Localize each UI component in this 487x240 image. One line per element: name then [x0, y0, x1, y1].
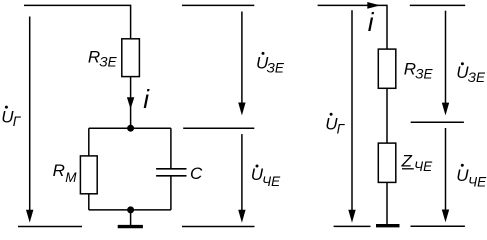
arrowhead U_G left diagram	[26, 210, 33, 223]
wire R_ZE bottom to node A	[130, 77, 132, 129]
wire top rail mid segment	[182, 4, 254, 6]
svg-text:ЗЕ: ЗЕ	[468, 70, 486, 85]
wire U_ZE arrow shaft left diagram	[241, 12, 243, 104]
dot of U_CHE label right	[461, 164, 464, 167]
svg-text:ЗЕ: ЗЕ	[415, 67, 433, 82]
wire corner down to R_ZE right	[386, 5, 388, 49]
svg-text:Z: Z	[401, 152, 413, 171]
wire cap branch top	[170, 128, 172, 168]
svg-text:R: R	[88, 47, 100, 66]
impedance Z_CHE body	[378, 143, 396, 182]
wire U_ZE arrow shaft right diagram	[445, 11, 447, 104]
resistor R_ZE left diagram body	[122, 39, 140, 77]
dot of U_CHE label left	[256, 165, 259, 168]
node A junction dot top	[127, 125, 134, 132]
underline of Z_CHE	[402, 168, 414, 170]
wire RC top	[89, 127, 171, 129]
wire U_G arrow shaft right diagram	[351, 10, 353, 210]
wire bottom rail mid segment	[182, 226, 255, 228]
svg-text:C: C	[190, 164, 203, 183]
arrowhead U_CHE left diagram	[238, 210, 245, 223]
wire top rail left diagram	[24, 4, 131, 6]
dot of U_G label right	[330, 113, 333, 116]
svg-text:R: R	[53, 161, 65, 180]
wire U_CHE arrow shaft right diagram	[445, 128, 447, 210]
wire corner down to R_ZE	[130, 5, 132, 39]
wire RC bottom	[89, 209, 171, 211]
svg-text:ЗЕ: ЗЕ	[99, 55, 117, 70]
arrowhead current i right diagram	[367, 2, 380, 9]
arrowhead U_G right diagram	[348, 210, 355, 223]
dot of U_ZE label right	[461, 62, 464, 65]
wire bottom rail right diagram left segment	[334, 225, 371, 227]
capacitor C plate bottom	[156, 175, 186, 177]
svg-text:ЧЕ: ЧЕ	[414, 159, 433, 174]
wire mid rail left diagram	[183, 127, 254, 129]
svg-text:Г: Г	[13, 114, 22, 129]
wire top feed right diagram	[318, 4, 387, 6]
node B junction dot bottom	[127, 206, 134, 213]
wire R_ZE to Z_CHE right	[386, 88, 388, 143]
svg-text:i: i	[143, 84, 150, 114]
resistor R_M body	[80, 156, 97, 194]
wire mid rail right column	[411, 121, 464, 123]
arrowhead U_ZE left diagram	[238, 103, 245, 116]
arrowhead U_ZE right diagram	[442, 103, 449, 116]
dot of U_ZE label left	[262, 52, 265, 55]
svg-text:ЧЕ: ЧЕ	[468, 175, 487, 190]
arrowhead U_CHE right diagram	[442, 210, 449, 223]
wire top rail right column	[410, 4, 465, 6]
svg-text:ЗЕ: ЗЕ	[267, 61, 285, 76]
dot of U_G label left	[5, 106, 8, 109]
capacitor C plate top	[156, 168, 186, 170]
wire bottom rail right column	[411, 225, 465, 227]
svg-text:R: R	[404, 60, 416, 79]
wire ground stub	[130, 210, 132, 225]
svg-text:M: M	[65, 170, 77, 185]
svg-text:i: i	[368, 7, 375, 37]
wire U_G arrow shaft left	[29, 17, 31, 211]
ground bar left diagram	[118, 225, 143, 228]
resistor R_ZE right diagram body	[378, 49, 396, 88]
wire cap branch bottom	[170, 176, 172, 210]
arrowhead current i left diagram	[127, 97, 134, 109]
wire left branch to R_M	[88, 128, 90, 156]
svg-text:ЧЕ: ЧЕ	[262, 174, 281, 189]
svg-text:Г: Г	[337, 121, 346, 136]
wire bottom rail left segment	[18, 226, 82, 228]
wire R_M bottom to RC bottom	[88, 194, 90, 210]
wire U_CHE arrow shaft left diagram	[241, 134, 243, 210]
ground bar right diagram	[376, 224, 400, 227]
wire Z_CHE to ground right	[386, 182, 388, 224]
